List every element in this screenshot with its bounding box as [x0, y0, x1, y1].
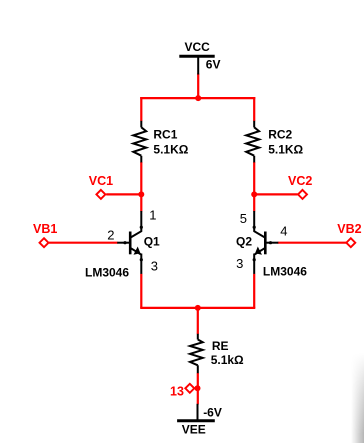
svg-text:VC2: VC2	[288, 174, 312, 188]
svg-text:RE: RE	[212, 339, 229, 353]
svg-text:13: 13	[170, 384, 184, 398]
svg-text:VC1: VC1	[89, 174, 113, 188]
svg-text:VCC: VCC	[185, 40, 211, 54]
svg-text:VEE: VEE	[182, 423, 206, 437]
svg-text:1: 1	[149, 208, 156, 223]
svg-text:3: 3	[236, 256, 243, 271]
svg-text:VB2: VB2	[337, 222, 361, 236]
svg-text:6V: 6V	[206, 58, 221, 72]
svg-text:5: 5	[240, 211, 247, 226]
svg-text:LM3046: LM3046	[263, 265, 307, 279]
svg-text:3: 3	[151, 259, 158, 274]
svg-text:-6V: -6V	[203, 406, 222, 420]
svg-text:VB1: VB1	[33, 222, 57, 236]
svg-text:5.1kΩ: 5.1kΩ	[211, 353, 244, 367]
svg-text:Q1: Q1	[144, 235, 160, 249]
svg-text:LM3046: LM3046	[85, 265, 129, 279]
svg-text:Q2: Q2	[236, 235, 252, 249]
svg-text:4: 4	[280, 224, 287, 239]
svg-text:RC2: RC2	[268, 127, 292, 141]
svg-text:5.1KΩ: 5.1KΩ	[268, 142, 303, 156]
svg-text:RC1: RC1	[153, 127, 177, 141]
svg-text:2: 2	[107, 227, 114, 242]
svg-text:5.1KΩ: 5.1KΩ	[153, 142, 188, 156]
